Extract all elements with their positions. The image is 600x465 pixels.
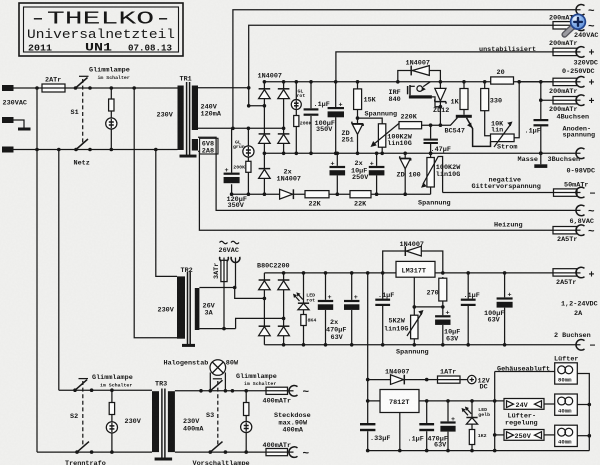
PE ground bar	[18, 128, 31, 131]
7812 ground pin	[399, 413, 401, 451]
node AC2	[231, 127, 235, 131]
resistor 22K no2	[350, 191, 371, 198]
capacitor 100uF 350V electrolytic	[328, 107, 344, 109]
resistor 22K no1	[305, 191, 329, 198]
TR3 core	[161, 389, 163, 458]
capacitor 10uF 250V no2	[376, 153, 378, 194]
DC+ rail y82	[264, 81, 553, 83]
connector 1,2-24VDC	[576, 267, 585, 278]
wire raw AC rail 2	[249, 25, 553, 88]
capacitor 10uF 63V	[435, 315, 450, 317]
fan3 right wire	[577, 435, 589, 437]
capacitor 470uF no1	[325, 273, 327, 345]
S2 top row wire	[59, 389, 152, 391]
bridge2 left column	[263, 273, 265, 345]
fuse 50mATr	[554, 189, 578, 196]
fuse 3ATr	[223, 258, 225, 261]
capacitor .47uF	[430, 125, 432, 153]
resistor 200K of GL rot	[294, 116, 299, 127]
resistor 200K of GL gruen	[246, 161, 251, 172]
potentiometer 100K2W lin10G no2	[430, 153, 432, 194]
Masse rail	[264, 152, 580, 154]
wire jog to bridge AC1	[249, 88, 265, 106]
capacitor .1uF 350V column	[310, 82, 312, 154]
wire drop to S2 top line	[58, 150, 60, 391]
6V8 2A8 label box	[200, 138, 218, 154]
heater wire bottom	[198, 151, 553, 230]
wire drop to TR2 primary top	[156, 150, 177, 277]
PE ground wire	[14, 120, 25, 128]
fuse 200mATr row2	[553, 22, 577, 29]
connector +12V DC	[460, 379, 468, 381]
wire 250V left	[495, 434, 504, 436]
heater wire top	[198, 137, 581, 210]
node AC1	[247, 104, 251, 108]
switch S2 bottom blade	[77, 442, 89, 453]
connector heater 1	[576, 205, 585, 216]
capacitor .1uF plates	[304, 108, 319, 110]
TR2 core ground bar	[182, 344, 195, 347]
TR3 core ground bar	[155, 458, 173, 461]
switch S2 dashed link	[82, 381, 84, 445]
negative Gittervorspannung row	[443, 192, 554, 194]
TR1 secondary 240V bar	[192, 86, 198, 131]
regulator LM317T	[396, 261, 435, 277]
dots bridge1	[263, 80, 267, 84]
diode D1	[259, 88, 271, 90]
glow lamp 3 column	[245, 391, 247, 452]
TR1 heater winding 6V8 bar	[192, 139, 198, 151]
fan3 box 40mm	[555, 425, 578, 446]
250V control box	[504, 430, 544, 441]
potentiometer 5K2W lin10G	[411, 315, 418, 339]
fuse 2A5Tr output	[553, 269, 577, 276]
wire raw AC rail 1	[233, 10, 581, 129]
24V control box	[504, 399, 544, 410]
glow lamp 1 branch wire	[110, 88, 112, 150]
resistor 220K	[399, 122, 422, 129]
fan1 right wire	[577, 374, 589, 451]
TR3 secondary top row	[175, 390, 246, 392]
S2 bottom row wire	[37, 451, 152, 453]
LED rot symbol	[298, 302, 309, 304]
wire 220K to base node	[422, 118, 458, 126]
switch S3 dashed link	[217, 381, 219, 445]
fuse 1ATr	[427, 379, 438, 381]
glow lamp GL gruen column	[247, 128, 249, 194]
wire drop to S2 line	[36, 88, 38, 452]
wire fuse to sec bottom	[223, 282, 225, 329]
switch S1 bottom blade	[76, 139, 88, 150]
pot arrow	[374, 124, 399, 144]
switch S3 bottom blade	[210, 442, 222, 453]
resistor 8K4	[301, 315, 306, 326]
connector 2 Buchsen minus	[576, 339, 585, 350]
connector neg	[576, 187, 585, 198]
glow lamp 3	[241, 421, 252, 432]
fuse 200mATr row4	[553, 78, 577, 85]
glow lamp GL rot column	[295, 82, 297, 154]
switch S3 top blade	[210, 380, 222, 391]
LM317 adjust wire	[414, 277, 443, 315]
wire mains top after fuse	[65, 87, 178, 89]
TR2 secondary bar	[195, 288, 200, 330]
TR2 sec top wire	[199, 258, 235, 288]
negative supply wire y194	[232, 193, 431, 195]
connector 320VDC	[576, 47, 585, 58]
zener ZD251	[357, 118, 359, 153]
glow lamp 2 column	[111, 390, 113, 452]
title block frame	[19, 3, 183, 56]
TR3 secondary bottom row	[175, 451, 246, 453]
7812 output wire	[419, 400, 504, 402]
resistor 1K	[460, 89, 468, 110]
ground bar below Masse	[539, 151, 543, 155]
wire 15K to pot	[358, 110, 383, 124]
diode D2	[278, 88, 290, 90]
TR1 primary winding bar	[178, 86, 184, 151]
capacitor 470uF no2	[351, 273, 353, 345]
wire to row5	[541, 82, 553, 100]
zener ZD12	[439, 82, 441, 88]
wire to fan1	[495, 371, 555, 373]
26VAC tap marks	[220, 241, 240, 244]
resistor 1K2	[469, 430, 474, 445]
wire TR1 secondary top	[198, 87, 249, 89]
resistor 270	[442, 277, 444, 315]
switch S1 dashed link	[82, 79, 84, 143]
input terminal N	[2, 147, 14, 153]
wire 24V to fan2	[544, 403, 555, 405]
connector 0-250VDC	[576, 77, 585, 88]
capacitor 470uF 63V 7812	[447, 401, 449, 451]
bridge1 right column	[283, 82, 285, 154]
switch S2 top blade	[75, 380, 87, 391]
resistor 15K	[354, 89, 362, 110]
transistor BC547	[456, 115, 472, 118]
diode D4	[278, 133, 290, 135]
wire pot right to rail	[514, 82, 519, 138]
capacitor .33uF	[367, 401, 369, 451]
resistor 20 in rail	[491, 77, 514, 84]
switch S1 top blade	[76, 78, 88, 89]
capacitor 100uF 63V	[504, 273, 506, 345]
resistor 330	[481, 89, 489, 111]
halogen lamp stubs	[210, 373, 225, 391]
potentiometer 100K2W lin10G (Spannung)	[378, 124, 385, 147]
node sec top	[247, 86, 251, 90]
LED gelb column	[471, 401, 473, 451]
input terminal PE	[2, 117, 14, 123]
wire mains bottom Netz	[14, 149, 178, 151]
TR2 sec bottom wire	[199, 318, 283, 328]
wire into 7812 input	[368, 380, 380, 401]
bridge2 DC+ rail	[264, 272, 396, 274]
diode 2x 1N4007 vertical	[263, 153, 265, 194]
capacitor 100uF 350V column	[335, 82, 337, 154]
connector 240VAC row1	[576, 5, 585, 16]
connector heater 2	[576, 225, 585, 236]
fan2 right wire	[577, 404, 589, 406]
connector Masse	[576, 148, 585, 159]
connector 400mATr top	[289, 385, 298, 396]
diode 1N4007 7812 wire	[368, 379, 427, 381]
TR2 core	[187, 272, 189, 344]
connector 240VAC row2	[576, 20, 585, 31]
IRF source bar	[409, 95, 432, 98]
regulator 7812T	[380, 390, 419, 413]
glow lamp 2	[106, 422, 117, 433]
potentiometer 10K lin (Strom)	[491, 134, 515, 142]
wire to 7812 feed	[367, 273, 369, 380]
connector row5	[576, 95, 585, 106]
capacitor .1uF anode	[540, 100, 542, 153]
glow lamp GL rot	[291, 100, 301, 110]
fan1 box 80mm	[555, 363, 578, 384]
fuse 400mATr top	[246, 390, 266, 392]
wire source to node	[432, 97, 441, 107]
bridge2 right column	[283, 273, 285, 345]
connector 26VAC no2	[231, 257, 240, 263]
fuse 2ATr	[42, 84, 65, 92]
capacitor 120uF 350V	[231, 128, 233, 194]
wire mains top	[14, 87, 43, 89]
magnifier zoom icon	[565, 14, 586, 34]
TR1 core	[186, 82, 188, 155]
TR1 core ground bar	[180, 155, 197, 158]
LM317 output rail	[435, 272, 553, 274]
fuse 200mATr row3	[553, 48, 577, 55]
wire 250V to fan3	[544, 434, 555, 436]
TR3 primary bar	[152, 391, 159, 452]
capacitor .1uF left of LM317	[382, 273, 384, 345]
fuse 400mATr bottom	[246, 451, 266, 453]
7812 ground rail	[368, 450, 590, 452]
connector 26VAC no1	[220, 257, 229, 263]
capacitor .1uF mid	[467, 273, 469, 345]
halogen lamp Halogenstab	[210, 360, 226, 376]
capacitor 10uF 250V no1	[336, 153, 338, 194]
LED gelb symbol	[466, 417, 477, 419]
fan feed vertical	[494, 372, 496, 451]
bridge1 left column	[263, 82, 265, 154]
glow lamp GL gruen	[243, 146, 254, 157]
wire unstab rail 3	[336, 52, 553, 82]
resistor of glow lamp 1	[109, 99, 114, 111]
TR2 primary bar	[177, 276, 185, 338]
resistor 15K column	[357, 82, 359, 89]
fan2 box 40mm	[555, 394, 578, 415]
fuse 200mATr row5	[553, 97, 577, 104]
LED rot column	[303, 273, 305, 345]
wire TR1 secondary bottom	[198, 127, 284, 129]
capacitor .1uF 7812	[426, 401, 428, 451]
input terminal L	[2, 85, 14, 91]
diode D3	[259, 133, 271, 135]
junction dots mains rows	[35, 86, 39, 90]
fuse 2A5Tr heater	[553, 227, 577, 234]
resistor glow lamp 3	[244, 403, 249, 416]
glow lamp 1	[106, 118, 117, 129]
zener ZD100	[404, 153, 406, 194]
wire drop to TR2 primary bottom	[134, 88, 177, 338]
TR3 secondary bar	[168, 391, 175, 452]
bridge2 bottom rail	[264, 344, 580, 346]
diode 1N4007 horizontal	[292, 189, 294, 199]
resistor glow lamp 2	[109, 403, 114, 415]
connector 400mATr bottom	[289, 447, 298, 458]
